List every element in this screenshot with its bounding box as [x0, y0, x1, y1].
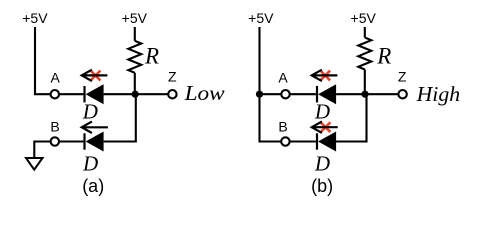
svg-text:B: B	[50, 119, 59, 135]
svg-text:High: High	[416, 82, 461, 106]
svg-text:R: R	[144, 44, 159, 69]
wire left rail a: +5V down to A row then right to input A	[35, 27, 51, 94]
svg-text:Low: Low	[183, 81, 224, 105]
wire node Z down and left to diode D2 anode	[104, 94, 136, 141]
svg-text:D: D	[82, 151, 98, 175]
wire resistor R to node Z	[364, 70, 366, 95]
diode D4 cathode bar	[316, 133, 318, 149]
svg-text:Z: Z	[398, 69, 407, 85]
svg-text:A: A	[51, 70, 61, 86]
wire input A to diode D1 cathode	[59, 93, 83, 95]
input terminal B (open circle)	[281, 137, 289, 145]
output terminal Z (open circle)	[398, 90, 406, 98]
svg-text:D: D	[82, 99, 98, 123]
svg-text:D: D	[314, 99, 330, 123]
wire left rail b: +5V down past A row to B row then right to input B	[260, 27, 282, 142]
svg-text:(b): (b)	[311, 176, 333, 196]
input terminal A (open circle)	[51, 90, 59, 98]
wire diode D1 anode to node Z	[104, 93, 169, 95]
diode D4 triangle (anode right, pointing left)	[318, 132, 336, 152]
wire +5V to resistor R	[364, 27, 366, 38]
red X (no current through D3)	[320, 71, 330, 81]
resistor R (zigzag)	[128, 41, 141, 73]
current arrow over D1 (blocked)	[82, 70, 108, 81]
input terminal B (open circle)	[51, 137, 59, 145]
diode D3 triangle (anode right, pointing left)	[318, 84, 336, 104]
svg-text:B: B	[278, 119, 287, 135]
svg-text:+5V: +5V	[248, 10, 274, 26]
svg-text:Z: Z	[168, 69, 177, 85]
wire resistor R to node Z	[134, 73, 136, 94]
junction node Z (a)	[132, 91, 139, 98]
output terminal Z (open circle)	[168, 90, 176, 98]
svg-text:+5V: +5V	[122, 10, 148, 26]
diode D2 triangle (anode right, pointing left)	[86, 132, 104, 152]
diode D3 cathode bar	[316, 86, 318, 102]
resistor R (zigzag)	[358, 38, 371, 70]
current arrow over D4 (blocked)	[312, 122, 338, 133]
diode D1 triangle (anode right, pointing left)	[86, 84, 104, 104]
svg-text:R: R	[376, 44, 391, 69]
red X (no current through D4)	[321, 122, 331, 132]
diode D2 cathode bar	[83, 133, 85, 149]
red X (no current through D1)	[91, 71, 101, 81]
diode D1 cathode bar	[83, 86, 85, 102]
wire diode D3 anode to node Z	[336, 93, 398, 95]
wire input B to ground	[34, 142, 50, 158]
svg-text:+5V: +5V	[351, 10, 377, 26]
current arrow over D2 (conducting)	[82, 122, 108, 133]
svg-text:D: D	[314, 151, 330, 175]
svg-text:(a): (a)	[82, 176, 104, 196]
svg-text:+5V: +5V	[22, 10, 48, 26]
current arrow over D3 (blocked)	[312, 70, 338, 81]
wire +5V to resistor R	[134, 27, 136, 41]
wire left rail to input A	[260, 93, 282, 95]
junction node Z (b)	[361, 91, 368, 98]
input terminal A (open circle)	[281, 90, 289, 98]
wire input B to diode D4 cathode	[290, 140, 316, 142]
svg-text:A: A	[278, 70, 288, 86]
wire input A to diode D3 cathode	[290, 93, 316, 95]
junction dot left rail at A row	[256, 91, 263, 98]
wire node Z down and left to diode D4 anode	[336, 94, 367, 141]
ground symbol	[26, 158, 43, 170]
wire diode D2 cathode to input B	[59, 140, 83, 142]
